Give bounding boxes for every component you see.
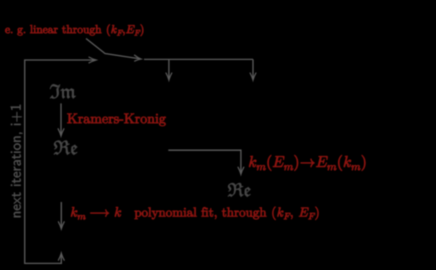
arrowhead into first box (right) [89, 57, 96, 63]
node Re 2 (fraktur) [228, 183, 251, 197]
label "e. g. linear through (kF,EF)" [5, 25, 143, 37]
label "km(Em) -> Em(km)" [249, 155, 365, 171]
wire: second branch down [252, 59, 254, 79]
arrowhead elbow (down) [238, 167, 244, 174]
node Re (fraktur) [54, 141, 77, 155]
arrowhead first branch (down) [166, 73, 172, 80]
node Im (fraktur) [50, 84, 76, 98]
wire: elbow to second Re [168, 150, 241, 173]
wire: down into polynomial fit step [60, 202, 62, 228]
label "polynomial fit, through (kF, EF)" [135, 207, 319, 220]
wire: first branch down [168, 59, 170, 79]
wire: top distribution line [144, 58, 253, 60]
wire: Im to Re [60, 103, 62, 135]
label "km -> k" [71, 207, 121, 219]
arrowhead into fit step (down) [58, 222, 64, 229]
arrowhead Im to Re (down) [58, 129, 64, 136]
wire: left feedback loop (top corner, left vertical, bottom run) [25, 60, 96, 263]
label "Kramers-Kronig" [67, 114, 165, 127]
arrowhead at loop end (up) [58, 253, 64, 260]
label "next iteration, i+1" (rotated) [11, 105, 23, 217]
annotation arrow from label to node box [86, 39, 140, 59]
arrowhead second branch (down) [250, 73, 256, 80]
